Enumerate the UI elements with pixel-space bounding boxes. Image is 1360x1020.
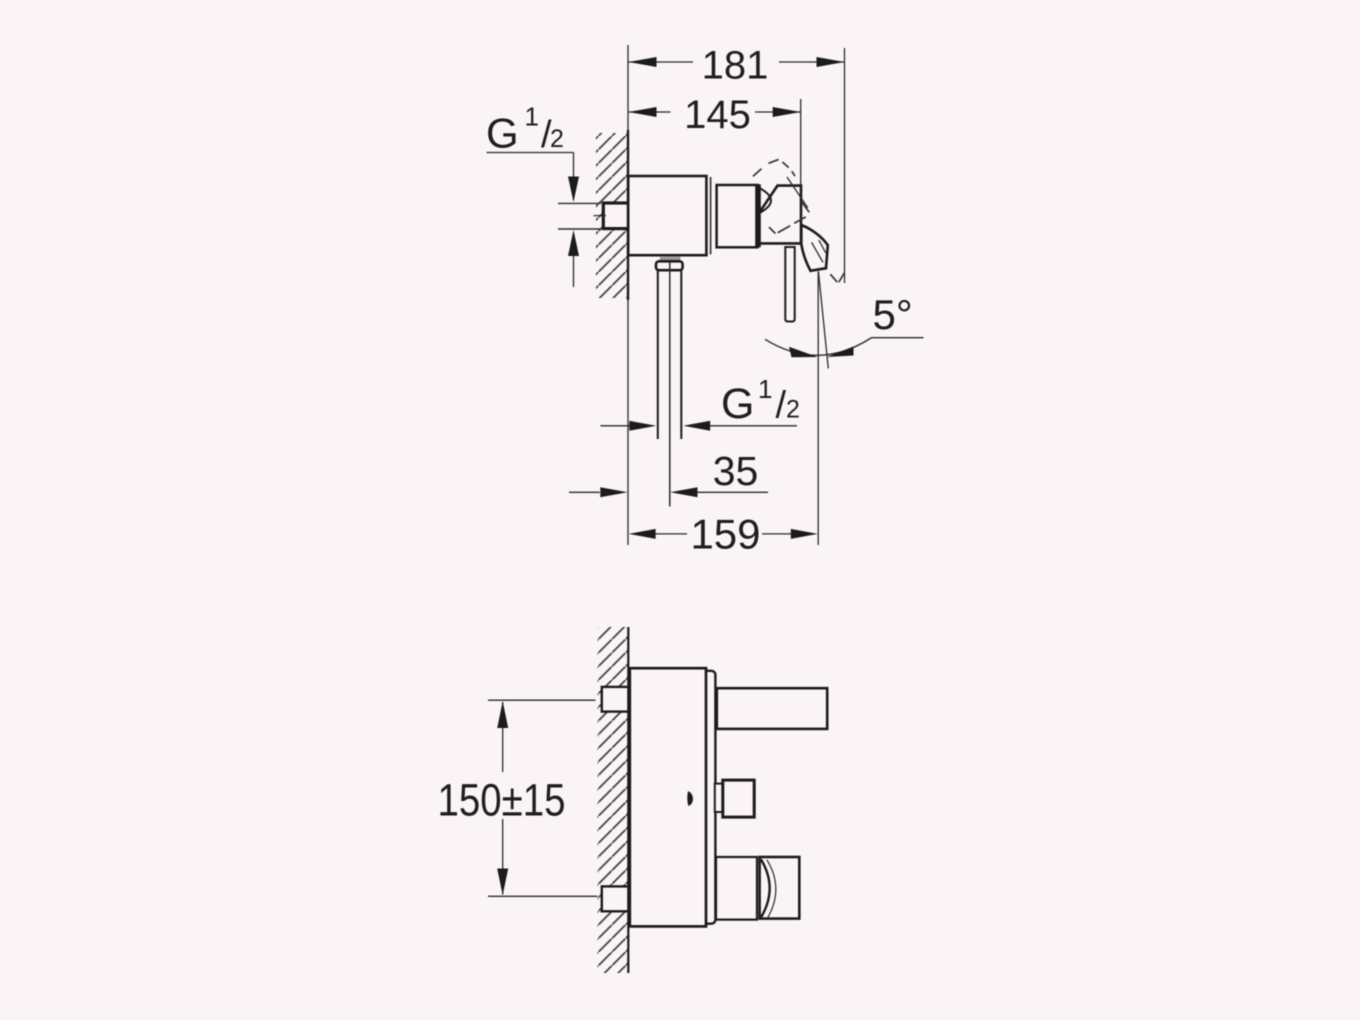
nut curve thin — [767, 860, 776, 918]
shower outlet grey band — [660, 257, 681, 262]
inlet diameter arrows — [568, 177, 579, 203]
svg-text:159: 159 — [690, 511, 760, 558]
svg-text:/: / — [776, 385, 787, 427]
outlet nut — [656, 261, 683, 270]
svg-text:145: 145 — [684, 93, 751, 137]
faucet body (top view) — [628, 176, 706, 255]
arc arrowheads — [789, 347, 818, 358]
wall hatching (bottom view) — [598, 627, 629, 973]
wall surface line + extension line (top view) — [627, 45, 629, 545]
junction bar — [755, 184, 761, 247]
dashed alternate handle position — [753, 159, 845, 282]
dimension 145 — [628, 99, 801, 185]
svg-text:181: 181 — [702, 44, 769, 88]
svg-text:5°: 5° — [873, 291, 913, 338]
dimension 150+-15 — [488, 700, 598, 896]
lever beak — [801, 225, 828, 271]
small hole mark — [687, 791, 693, 806]
supply stub top — [602, 687, 630, 712]
inlet pipe thin lines — [558, 202, 601, 204]
diverter knob stub — [715, 784, 724, 812]
faucet body (bottom view) — [630, 668, 706, 926]
G 1/2 label (top-left) — [486, 102, 564, 157]
pipe centerline — [669, 262, 671, 507]
cartridge housing — [717, 185, 758, 247]
lever rod — [785, 247, 794, 322]
svg-text:1: 1 — [758, 374, 772, 404]
wall surface line (bottom view) — [627, 627, 629, 973]
G1/2 pipe diameter dimension — [601, 425, 798, 427]
G1/2 inlet stub in wall — [603, 203, 629, 229]
handle base pentagon — [758, 186, 801, 244]
svg-text:G: G — [486, 109, 519, 156]
svg-text:2: 2 — [786, 396, 800, 424]
svg-text:35: 35 — [713, 448, 759, 494]
5 degree tilted line — [818, 271, 828, 368]
G1/2 leader line — [487, 153, 574, 288]
rotated lever edge (thin solid) — [787, 177, 808, 208]
dimension 159 — [655, 533, 793, 535]
shower outlet nut — [760, 857, 800, 919]
escutcheon ring line — [710, 177, 712, 254]
svg-text:150±15: 150±15 — [438, 775, 566, 826]
outlet pipe — [657, 270, 659, 439]
G 1/2 label (middle) — [721, 374, 800, 428]
svg-text:2: 2 — [550, 125, 564, 153]
vertical reference / 159 extension line — [817, 272, 819, 546]
shower outlet body — [716, 857, 757, 920]
pivot arc — [759, 188, 772, 214]
inlet pipe centerline tick — [594, 215, 607, 217]
supply stub bottom — [602, 886, 630, 911]
dimension 35 — [569, 491, 768, 493]
escutcheon ring (bottom view) — [700, 671, 715, 924]
5 degree arc — [765, 338, 871, 355]
dimension 181 — [628, 48, 845, 283]
svg-text:G: G — [721, 380, 754, 428]
beak inner lines — [812, 242, 824, 262]
bath spout — [717, 688, 827, 729]
wall hatching (top view) — [596, 133, 628, 298]
svg-text:1: 1 — [525, 102, 539, 132]
diverter knob — [723, 780, 754, 817]
nut curve thick — [761, 859, 770, 917]
5 degree leader — [871, 337, 924, 339]
